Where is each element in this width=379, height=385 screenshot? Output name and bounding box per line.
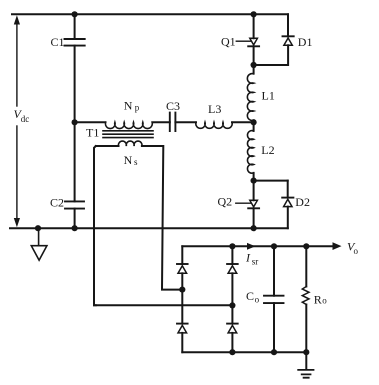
svg-text:Q1: Q1: [221, 35, 236, 49]
bridge diode top-left lead: [181, 273, 183, 289]
node top rail / C1: [72, 11, 78, 17]
svg-text:sr: sr: [252, 256, 259, 266]
diode D2 anode lead: [287, 207, 289, 229]
output arrowhead Vo: [333, 242, 342, 250]
inductor L1 top stub: [253, 65, 255, 74]
svg-text:L1: L1: [262, 88, 275, 102]
node bridge right top / output rail: [229, 243, 235, 249]
svg-text:s: s: [134, 157, 138, 167]
resistor Ro top lead: [305, 246, 307, 286]
inductor L2 top stub: [253, 122, 255, 131]
bridge diode bottom-right triangle: [228, 325, 237, 333]
capacitor C1 plates: [65, 39, 85, 46]
wire top rail: [12, 13, 288, 15]
svg-text:L3: L3: [208, 102, 221, 116]
bridge diode bottom-right bar: [227, 323, 238, 325]
capacitor C1 lead top: [74, 14, 76, 39]
capacitor C2 plates: [65, 201, 84, 208]
wire output bottom rail: [182, 351, 306, 353]
Isr current arrowhead: [247, 243, 256, 250]
diode D2 triangle: [284, 199, 292, 206]
ground symbol right (earth bars): [298, 370, 313, 378]
bridge diode top-right triangle: [228, 266, 237, 274]
diode D1 triangle: [284, 38, 292, 45]
node Co bottom: [271, 349, 277, 355]
svg-text:C3: C3: [166, 99, 180, 113]
thyristor Q1 anode lead: [253, 14, 255, 38]
svg-text:T1: T1: [86, 126, 99, 140]
inductor L2: [247, 131, 253, 174]
Vdc annotation arrow line (top segment): [16, 23, 18, 106]
bridge diode bottom-left triangle: [178, 325, 187, 333]
capacitor C1 lead bottom: [74, 46, 76, 123]
thyristor Q1 triangle: [250, 38, 258, 45]
resistor Ro zigzag: [302, 287, 309, 305]
bridge diode bottom-right lead: [231, 333, 233, 352]
bridge right mid lead: [231, 305, 233, 323]
node Co top: [271, 243, 277, 249]
node Q1/D1/L1: [251, 62, 257, 68]
node bridge right bottom: [229, 349, 235, 355]
bridge diode top-right bar: [227, 263, 238, 265]
svg-text:C: C: [246, 289, 254, 303]
node L2/Q2/D2: [251, 178, 257, 184]
node ground left: [35, 225, 41, 231]
node C1/C2/Np: [72, 119, 78, 125]
wire mid row (Np to C3): [153, 121, 170, 123]
svg-text:dc: dc: [21, 114, 30, 124]
wire bottom rail: [10, 227, 288, 229]
inductor L1: [247, 74, 253, 121]
thyristor Q1 cathode bar: [248, 45, 259, 47]
svg-text:N: N: [124, 153, 133, 167]
svg-text:I: I: [245, 250, 251, 264]
inductor L2 bottom stub: [253, 173, 255, 181]
ground stub left: [38, 228, 40, 245]
node C2 / bottom rail: [72, 225, 78, 231]
svg-text:o: o: [354, 246, 359, 256]
node secondary right / bridge left mid: [179, 287, 185, 293]
node Ro top: [303, 243, 309, 249]
capacitor C2 lead top: [74, 123, 76, 202]
ground symbol left (open triangle): [31, 246, 47, 261]
bridge rectifier left leg top lead: [181, 246, 183, 264]
svg-text:D2: D2: [295, 195, 310, 209]
node L1/L2/L3: [251, 119, 257, 125]
wire mid row (C3 to L3): [175, 121, 196, 123]
Vdc arrowhead down: [14, 218, 20, 227]
svg-text:C2: C2: [50, 196, 64, 210]
bridge rectifier right leg top lead: [231, 246, 233, 264]
wire top rail to D1: [287, 14, 289, 36]
bridge diode bottom-left lead: [181, 333, 183, 352]
svg-text:C1: C1: [51, 35, 65, 49]
capacitor C2 lead bottom: [74, 209, 76, 229]
capacitor C3 plates: [170, 113, 176, 132]
Vdc arrowhead up: [14, 15, 20, 24]
thyristor Q2 gate lead: [236, 202, 251, 204]
ground stub right: [305, 352, 307, 369]
Vdc annotation arrow line (bottom segment): [16, 126, 18, 220]
transformer T1 secondary winding Ns: [118, 141, 142, 146]
svg-text:D1: D1: [298, 35, 313, 49]
inductor L1 bottom stub: [253, 120, 255, 122]
thyristor Q2 cathode bar: [248, 207, 259, 209]
thyristor Q1 cathode lead: [253, 46, 255, 65]
thyristor Q1 gate lead: [236, 40, 250, 42]
node secondary left / bridge right mid: [229, 302, 235, 308]
transformer secondary loop left wire: [94, 146, 119, 305]
transformer T1 core: [103, 131, 153, 138]
diode D2 cathode lead: [287, 181, 289, 198]
node top rail / Q1: [251, 11, 257, 17]
svg-text:Q2: Q2: [218, 195, 233, 209]
svg-text:N: N: [124, 99, 133, 113]
diode D1 cathode bar: [283, 35, 294, 37]
node Q2 / bottom rail: [251, 225, 257, 231]
wire Q2/D2 top: [254, 180, 288, 182]
capacitor Co plates: [264, 296, 284, 303]
svg-text:R: R: [314, 292, 322, 306]
wire secondary left to bridge right mid: [94, 304, 232, 306]
wire output top rail: [182, 245, 332, 247]
diode D1 anode lead: [254, 45, 289, 65]
resistor Ro bottom lead: [305, 305, 307, 353]
capacitor Co bottom lead: [273, 303, 275, 352]
thyristor Q2 cathode lead: [253, 208, 255, 228]
wire mid row left (node to Np): [75, 121, 106, 123]
bridge diode top-left triangle: [178, 266, 187, 274]
thyristor Q2 triangle: [250, 200, 258, 207]
capacitor Co top lead: [273, 246, 275, 295]
transformer T1 primary winding Np: [105, 122, 152, 128]
node Ro bottom / ground: [303, 349, 309, 355]
svg-text:p: p: [135, 102, 140, 112]
wire mid row (L3 to node): [232, 121, 254, 123]
svg-text:o: o: [255, 294, 260, 304]
bridge diode bottom-left bar: [177, 323, 188, 325]
transformer secondary loop right wire: [142, 146, 182, 290]
thyristor Q2 anode lead: [253, 181, 255, 201]
svg-text:L2: L2: [261, 143, 274, 157]
bridge diode top-left bar: [177, 263, 188, 265]
svg-text:o: o: [322, 296, 327, 306]
bridge left mid lead: [181, 290, 183, 324]
inductor L3: [196, 122, 232, 128]
diode D2 cathode bar: [282, 197, 293, 199]
bridge diode top-right lead: [231, 273, 233, 305]
